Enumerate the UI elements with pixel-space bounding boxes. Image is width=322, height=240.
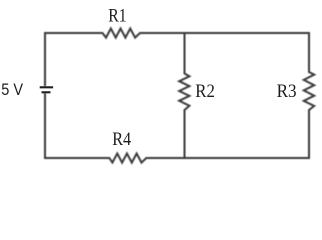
resistor R2 middle branch <box>179 32 189 159</box>
svg-text:R2: R2 <box>195 81 215 102</box>
resistor R3 right branch <box>304 32 314 159</box>
wire top rail with resistor R1 <box>45 29 309 38</box>
svg-text:R3: R3 <box>277 81 297 102</box>
wire bottom rail with resistor R4 <box>45 154 309 163</box>
wire left branch upper (battery top lead) <box>44 32 46 86</box>
battery positive plate (long) <box>40 86 53 88</box>
svg-text:R4: R4 <box>112 129 131 150</box>
svg-text:5 V: 5 V <box>1 81 23 99</box>
battery negative plate (short) <box>42 91 51 93</box>
wire left branch lower (battery bottom lead) <box>44 93 46 159</box>
svg-text:R1: R1 <box>108 5 126 26</box>
